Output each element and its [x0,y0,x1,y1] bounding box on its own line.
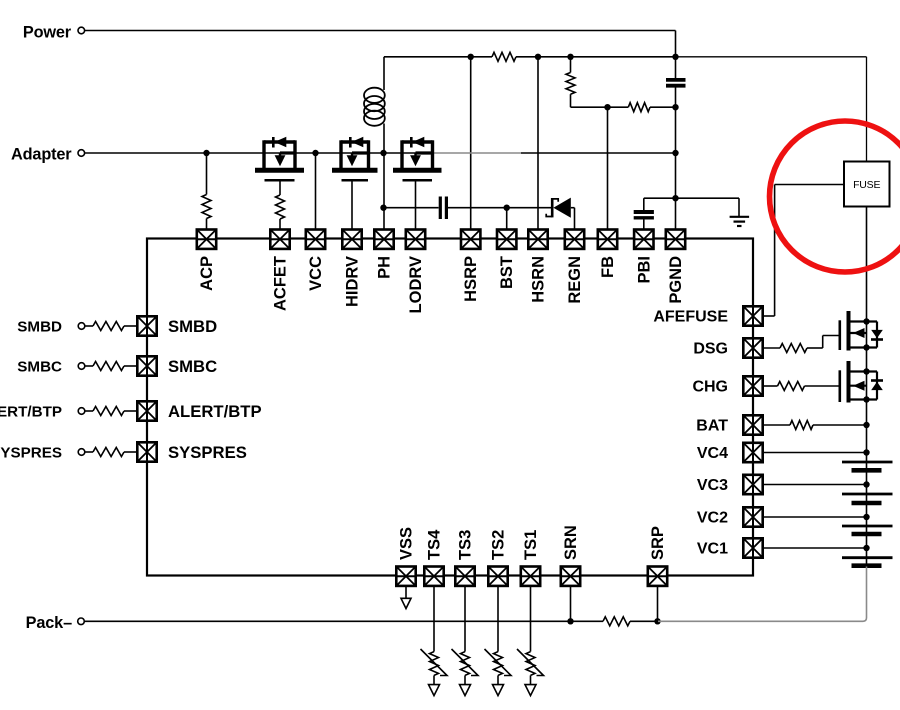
svg-text:ACP: ACP [198,256,216,291]
svg-text:HSRP: HSRP [462,256,480,302]
svg-text:VC4: VC4 [697,445,728,462]
svg-text:AFEFUSE: AFEFUSE [653,309,728,326]
svg-text:HSRN: HSRN [530,256,548,303]
svg-text:TS1: TS1 [522,530,540,560]
svg-text:VC3: VC3 [697,477,728,494]
svg-text:PBI: PBI [635,256,653,284]
svg-text:Pack–: Pack– [26,614,72,632]
svg-text:TS2: TS2 [490,530,508,560]
svg-text:VC1: VC1 [697,541,728,558]
svg-text:PH: PH [376,256,394,279]
svg-text:ALERT/BTP: ALERT/BTP [168,402,262,421]
svg-text:SMBC: SMBC [17,359,62,376]
svg-text:ALERT/BTP: ALERT/BTP [0,404,62,421]
svg-text:DSG: DSG [693,341,728,358]
svg-text:Adapter: Adapter [11,146,72,164]
svg-text:Power: Power [23,23,72,41]
svg-text:VC2: VC2 [697,510,728,527]
svg-text:SYSPRES: SYSPRES [0,445,62,462]
svg-text:SMBC: SMBC [168,357,217,376]
svg-text:REGN: REGN [566,256,584,304]
svg-text:VSS: VSS [398,527,416,560]
svg-text:SMBD: SMBD [168,317,217,336]
svg-text:SMBD: SMBD [17,319,62,336]
svg-text:CHG: CHG [692,379,728,396]
svg-text:ACFET: ACFET [272,256,290,311]
svg-text:VCC: VCC [307,256,325,291]
svg-text:FUSE: FUSE [853,179,880,191]
svg-text:FB: FB [599,256,617,278]
svg-text:PGND: PGND [667,256,685,304]
svg-text:SRN: SRN [562,525,580,560]
svg-text:SRP: SRP [649,526,667,560]
svg-text:BST: BST [498,256,516,289]
svg-text:TS4: TS4 [426,529,444,560]
svg-text:SYSPRES: SYSPRES [168,443,247,462]
svg-text:BAT: BAT [696,418,728,435]
svg-text:TS3: TS3 [457,530,475,560]
svg-text:LODRV: LODRV [407,256,425,313]
svg-text:HIDRV: HIDRV [344,256,362,307]
